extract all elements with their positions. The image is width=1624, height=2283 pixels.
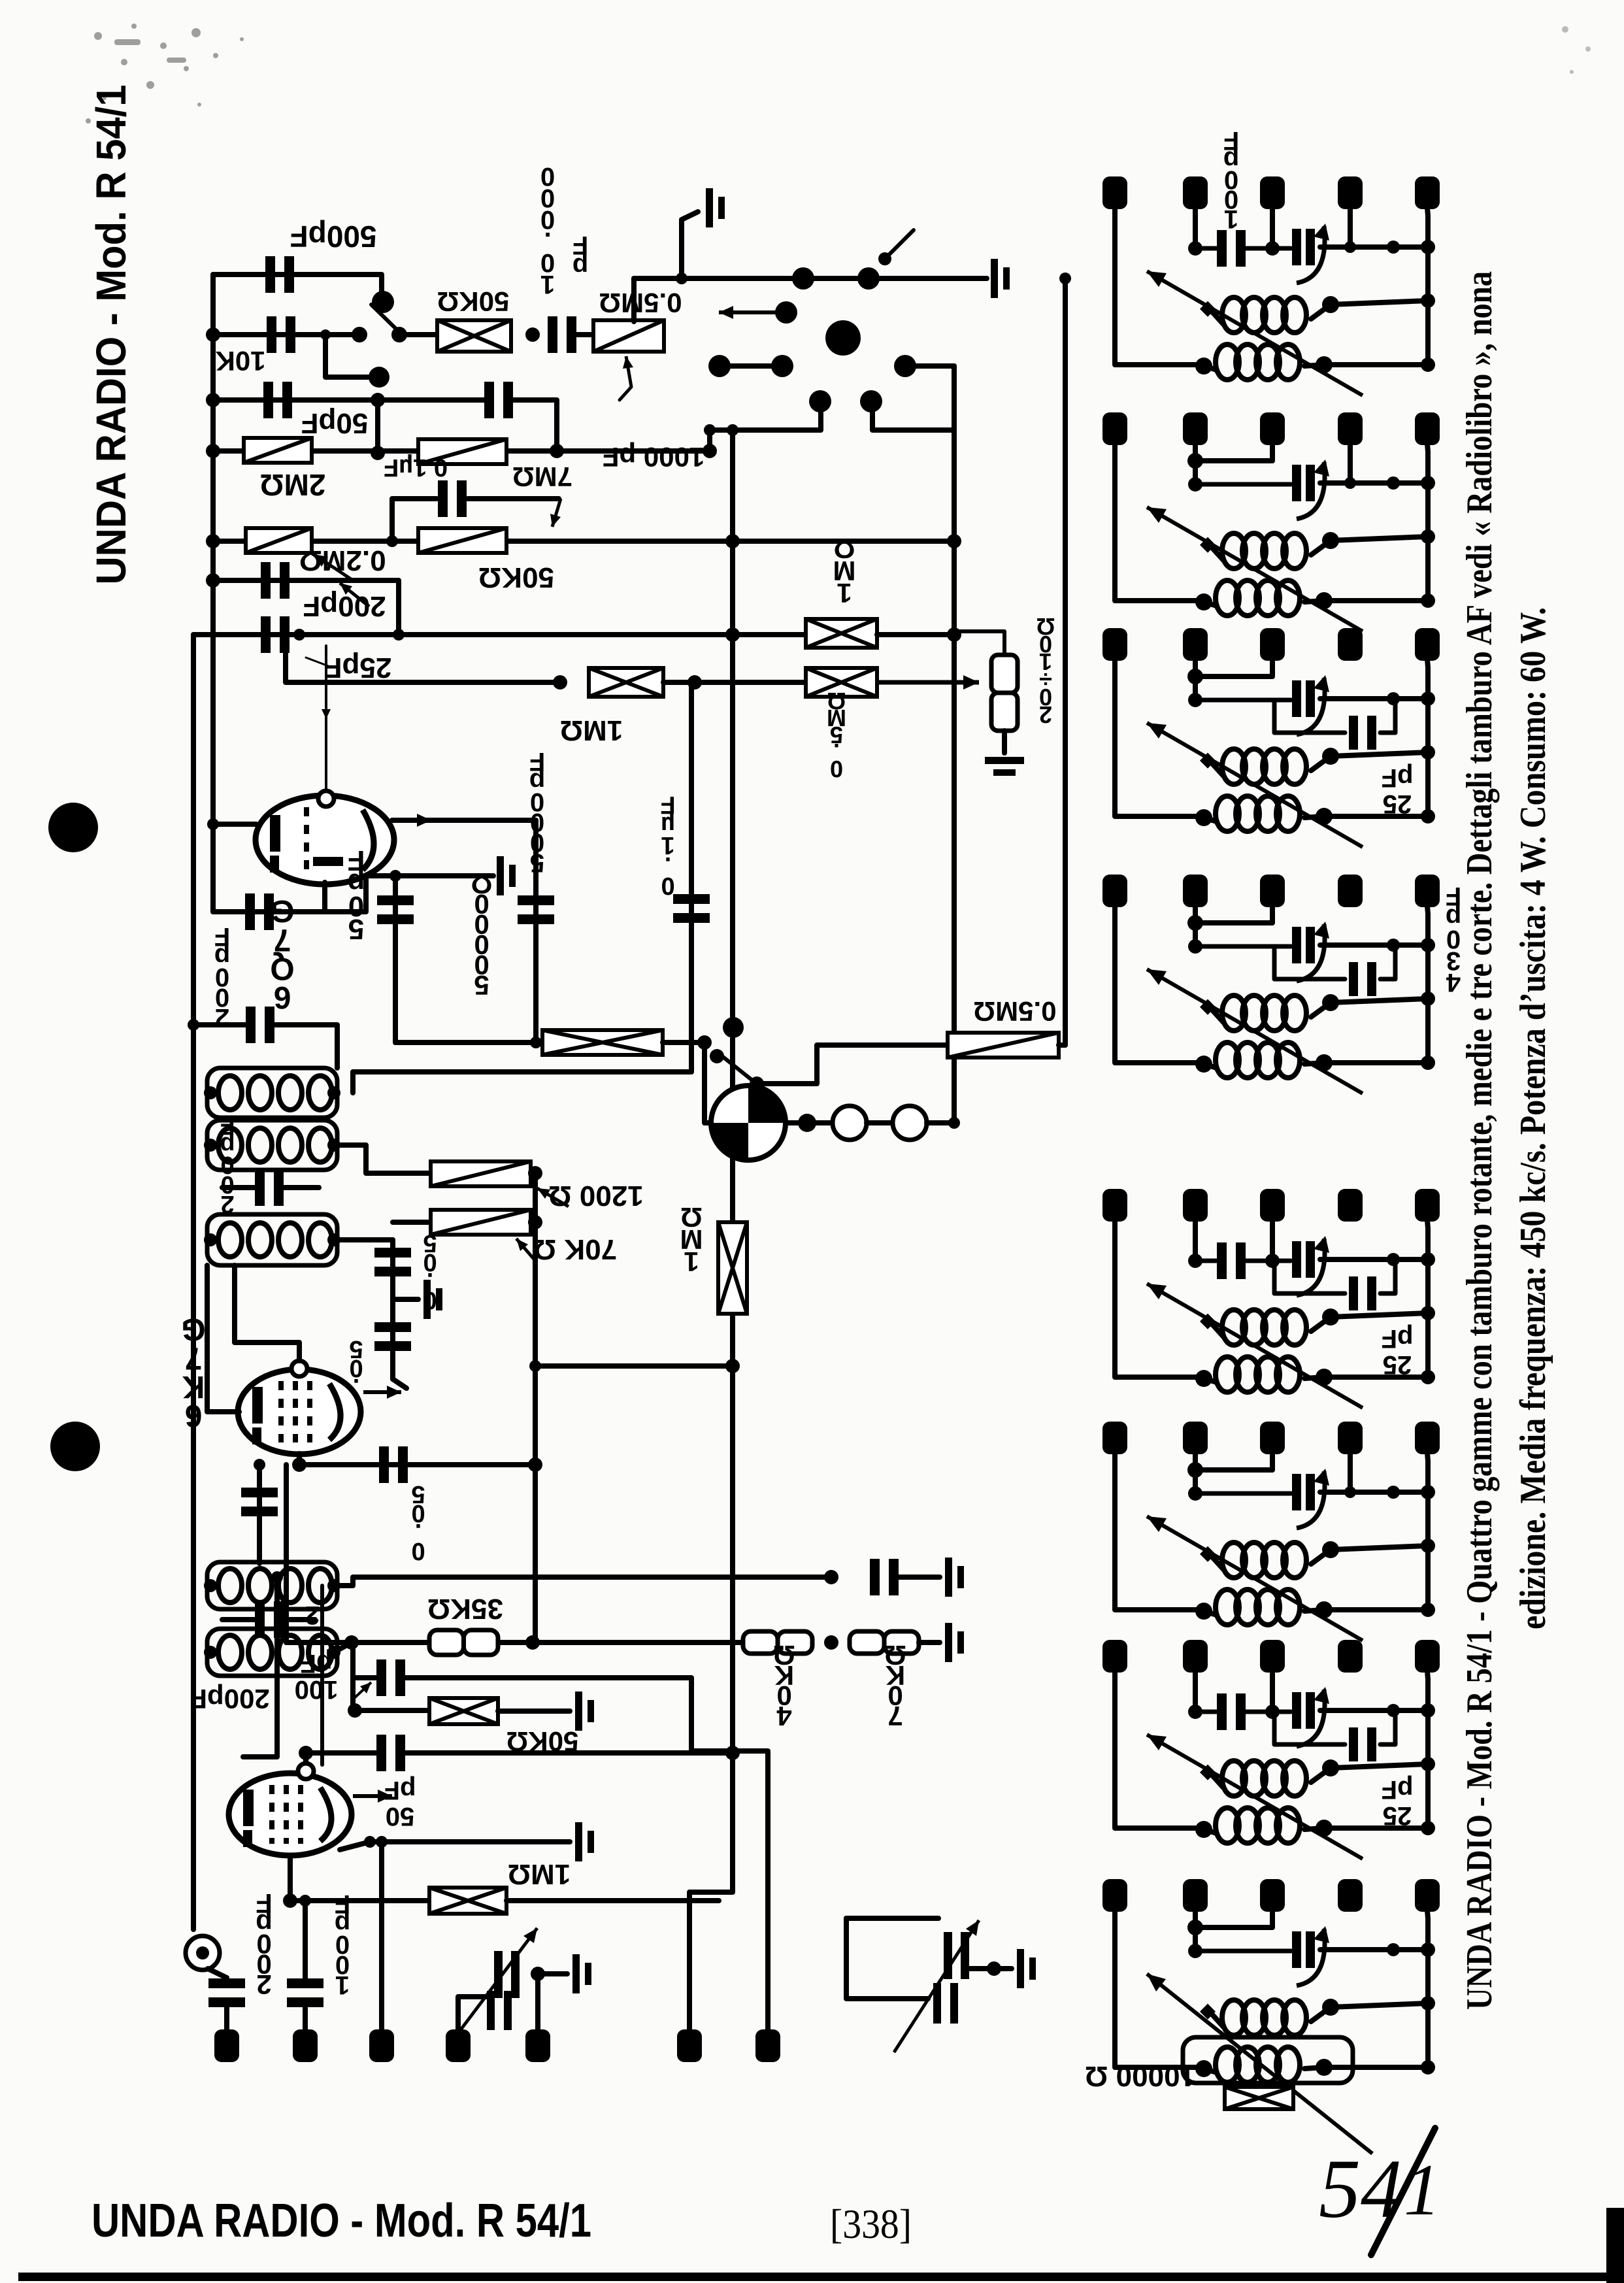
resistor 1M ohm rail: [806, 619, 877, 648]
M2 wire right rail: [1427, 444, 1428, 601]
capacitor 0.05 b: [374, 1322, 411, 1351]
tone switch dot a: [710, 1049, 724, 1063]
M8 wire coil upper right: [1311, 2003, 1428, 2022]
M4 wire p1 riser: [1115, 906, 1201, 1063]
wire socket feed b: [872, 407, 954, 430]
svg-text:25pF: 25pF: [325, 652, 392, 684]
M1 node rail low: [1421, 358, 1435, 372]
M8 coil lower right node: [1316, 2059, 1333, 2076]
M6 node p2: [1188, 1486, 1202, 1501]
oscillator winding: [218, 1223, 332, 1257]
M5 wire trimmer feed: [1246, 1259, 1291, 1263]
osc left node: [204, 1233, 217, 1246]
M6 coil upper right node: [1322, 1541, 1339, 1558]
M5 wire coil lower right: [1304, 1377, 1428, 1378]
wire mid row1044: [663, 680, 806, 685]
M4 capacitor side: [1349, 962, 1376, 996]
M4 slider diamond: [1200, 999, 1216, 1015]
M2 coil lower left curve: [1204, 602, 1217, 606]
wire 2M row: [213, 448, 710, 454]
M4 terminal pad 4: [1338, 875, 1363, 907]
M1 terminal pad 1: [1102, 176, 1127, 209]
M4 coil lower: [1216, 1042, 1300, 1078]
M3 slider diamond: [1200, 753, 1216, 769]
M2 coil upper: [1222, 533, 1306, 569]
wire 6K7G grid: [235, 1265, 299, 1361]
M1 label 100pF: [1223, 126, 1239, 233]
label 10.000 stacked: [540, 162, 555, 299]
padder trimmer B: [933, 1932, 969, 2024]
terminal pad osc: [446, 2029, 471, 2062]
svg-text:7: 7: [887, 1701, 903, 1731]
capacitor 0.05 c: [379, 1446, 408, 1483]
svg-text:edizione. Media frequenza: 450: edizione. Media frequenza: 450 kc/s. Pot…: [1513, 607, 1553, 1629]
svg-text:2MΩ: 2MΩ: [260, 468, 326, 502]
M6 wire right rail: [1427, 1453, 1428, 1610]
capacitor IF2: [255, 1601, 284, 1638]
node 424-2413: [271, 1571, 283, 1583]
svg-text:0.1µF: 0.1µF: [384, 454, 448, 481]
M4 terminal pad 5: [1415, 875, 1440, 907]
M4 terminal pad 1: [1102, 875, 1127, 907]
M4 node rail low: [1421, 1056, 1435, 1070]
svg-text:4: 4: [776, 1701, 792, 1731]
svg-text:10000 Ω: 10000 Ω: [1085, 2060, 1196, 2092]
M6 terminal pad 4: [1338, 1422, 1363, 1454]
svg-text:50pF: 50pF: [301, 407, 369, 439]
M6 coil lower left curve: [1204, 1611, 1217, 1615]
M4 wire right rail: [1427, 906, 1428, 1063]
M8 tuning arrow: [1147, 1974, 1372, 2154]
node 458-2241: [292, 1458, 307, 1472]
wire trimmer B gnd: [969, 1966, 1012, 1971]
wire left bus vertical: [210, 275, 216, 912]
M2 wire p3 step: [1195, 444, 1272, 461]
terminal pad ant: [214, 2029, 239, 2062]
M6 terminal pad 3: [1260, 1422, 1285, 1454]
node bus-690: [206, 444, 220, 458]
M4 coil upper: [1222, 995, 1306, 1031]
label 0.05 b: [349, 1335, 363, 1420]
IF1 winding A: [218, 1076, 332, 1110]
node V1-2090: [725, 1359, 740, 1373]
M3 node p2 step: [1187, 669, 1203, 684]
svg-text:pF: pF: [1382, 1775, 1414, 1804]
M6 coil lower right node: [1316, 1601, 1333, 1618]
M3 node p2: [1188, 693, 1202, 707]
wire socket gnd riser: [682, 212, 698, 278]
svg-text:1: 1: [335, 1971, 350, 1999]
M3 coil lower left node: [1195, 809, 1212, 826]
bottom right edge bar: [1606, 2208, 1624, 2283]
wire 70K row: [393, 1220, 431, 1225]
tube converter 6A8: [229, 1773, 352, 1856]
node trimmer B: [987, 1961, 1001, 1976]
wire x397 column: [257, 1465, 262, 1563]
M1 node p4: [1344, 241, 1356, 253]
M3 coil upper: [1222, 749, 1306, 784]
capacitor 10000pF: [548, 316, 576, 353]
M6 terminal pad 5: [1415, 1422, 1440, 1454]
wire 10K row: [213, 332, 358, 337]
M8 node rail low: [1421, 2060, 1435, 2075]
wire IF2 cap stub b: [282, 1617, 315, 1622]
M7 wire p2 drop: [1193, 1671, 1198, 1712]
wire row 2567: [353, 1675, 376, 1680]
M8 wire p3 step: [1195, 1910, 1272, 1927]
grid lead arrow: [322, 693, 331, 719]
M5 coil lower right node: [1316, 1369, 1333, 1386]
capacitor 200pF a: [261, 562, 290, 599]
label 200pF b: [214, 922, 230, 1032]
M6 node rail trim: [1421, 1485, 1435, 1499]
svg-text:pF: pF: [1382, 763, 1414, 792]
M7 terminal pad 1: [1102, 1640, 1127, 1673]
node V4-2241: [528, 1458, 542, 1472]
svg-text:1: 1: [1404, 2150, 1440, 2231]
wire row 2241: [299, 1462, 535, 1467]
ground trimmer A: [572, 1954, 591, 1993]
ground 70Kb: [945, 1623, 964, 1662]
M8 node rail trim: [1421, 1942, 1435, 1957]
switch lever top right: [889, 230, 914, 255]
socket pin 1: [792, 267, 814, 290]
capacitor 5000pF: [518, 895, 554, 924]
terminal pad osc2: [525, 2029, 550, 2062]
label 50000 ohm: [471, 869, 493, 1001]
wire socket top rail: [634, 276, 987, 281]
M2 node rail up: [1421, 529, 1435, 544]
label 6K7G: [181, 1312, 205, 1433]
M4 coil upper right node: [1322, 994, 1339, 1011]
M7 terminal pad 4: [1338, 1640, 1363, 1673]
node V2 bottom: [948, 1117, 960, 1129]
M6 wire p4 drop: [1348, 1453, 1353, 1492]
M7 wire side loop: [1274, 1712, 1345, 1744]
IF2 winding A frame: [207, 1562, 337, 1609]
ground trimmer B: [1017, 1949, 1036, 1988]
M5 label 25pF: [1382, 1324, 1414, 1379]
wire row 2908: [290, 1898, 429, 1903]
wire pad2 riser: [303, 1901, 308, 1978]
M1 wire trimmer rail: [1320, 244, 1428, 250]
M5 trimmer capacitor: [1292, 1236, 1329, 1295]
M4 wire coil lower right: [1304, 1063, 1428, 1064]
wire 0.2M long rail: [213, 539, 954, 544]
svg-text:p: p: [572, 252, 588, 281]
M3 node rail trim: [1421, 692, 1435, 706]
M7 wire cap link b: [1246, 1710, 1272, 1714]
M3 terminal pad 5: [1415, 628, 1440, 661]
svg-text:7MΩ: 7MΩ: [512, 461, 572, 492]
wire osc to 0.05 column: [334, 1237, 393, 1242]
wire 50pF drop: [393, 876, 398, 1042]
IF2 winding B: [218, 1635, 332, 1669]
resistor 50K ohm: [437, 320, 511, 352]
M2 terminal pad 3: [1260, 412, 1285, 445]
wire 50Kc gnd: [498, 1708, 570, 1714]
M3 wire trimmer feed: [1195, 698, 1291, 703]
M1 wire p3 drop: [1270, 208, 1275, 248]
resistor 50K ohm b: [418, 528, 506, 553]
M6 coil lower: [1216, 1590, 1300, 1625]
svg-text:1: 1: [540, 270, 555, 299]
tone switch lever: [719, 1054, 752, 1080]
wire tone row: [395, 1040, 542, 1045]
capacitor 1000pF: [484, 382, 513, 418]
M5 node rail low: [1421, 1370, 1435, 1384]
capacitor 500pF: [265, 256, 294, 293]
wire V7 vertical: [1063, 278, 1068, 1045]
wire V5: [350, 1642, 356, 1710]
M7 coil upper: [1222, 1761, 1306, 1796]
svg-text:UNDA RADIO - Mod. R 54/1: UNDA RADIO - Mod. R 54/1: [91, 2195, 591, 2247]
socket pin 4b: [708, 355, 731, 377]
node trimmer A: [531, 1967, 545, 1981]
M5 wire coil upper right: [1311, 1313, 1428, 1331]
M3 terminal pad 2: [1183, 628, 1208, 661]
wire IF2B to diamond: [334, 1642, 352, 1652]
M8 wire coil lower right: [1304, 2067, 1428, 2069]
M7 coil lower: [1216, 1808, 1300, 1843]
svg-text:0: 0: [411, 1537, 425, 1565]
wire IF2A to rail2413: [334, 1577, 831, 1586]
resistor 35K ohm: [429, 1630, 498, 1655]
M8 node p2: [1188, 1944, 1202, 1958]
M2 wire p4 drop: [1348, 444, 1353, 483]
bottom rule line: [18, 2273, 1624, 2281]
switch dot top right: [878, 252, 891, 265]
node 820-1595: [530, 1037, 542, 1048]
M7 node p2: [1188, 1705, 1202, 1719]
M1 terminal pad 3: [1260, 176, 1285, 209]
pilot lamp 1: [833, 1106, 867, 1140]
svg-text:0: 0: [661, 872, 674, 899]
wire trimmer B hook b: [846, 1918, 928, 1999]
M7 tuning arrow: [1147, 1735, 1363, 1859]
svg-text:0.2MΩ: 0.2MΩ: [299, 544, 386, 576]
M2 wire p2 drop: [1193, 444, 1198, 484]
node bus-888: [206, 573, 220, 588]
svg-text:25: 25: [1383, 790, 1412, 818]
wire socket rail drop: [631, 278, 637, 322]
M5 coil lower: [1216, 1357, 1300, 1392]
phono motor symbol: [711, 1086, 786, 1160]
M5 capacitor mid: [1217, 1242, 1246, 1279]
wire x424 bracket: [243, 1577, 277, 1757]
resistor 50000 ohm: [542, 1030, 663, 1055]
M7 node rail trim: [1421, 1703, 1435, 1718]
wire 1M drop link: [535, 1363, 733, 1369]
svg-text:1MΩ: 1MΩ: [508, 1858, 571, 1890]
M2 wire coil upper right: [1311, 537, 1428, 555]
IF2 A right node: [327, 1579, 340, 1592]
M2 coil upper right node: [1322, 532, 1339, 549]
M2 terminal pad 5: [1415, 412, 1440, 445]
svg-text:pF: pF: [1382, 1324, 1414, 1353]
resistor 0.5M ohm volume: [593, 320, 664, 352]
M7 wire coil lower right: [1304, 1828, 1428, 1829]
resistor 1200 ohm: [431, 1161, 531, 1186]
resistor 70K ohm b: [850, 1631, 919, 1654]
M5 terminal pad 5: [1415, 1189, 1440, 1222]
wire pad4 riser: [458, 1997, 489, 2029]
capacitor 0.1uF b: [673, 894, 710, 923]
node rail828-V1: [725, 534, 740, 548]
capacitor 50pF: [263, 382, 292, 418]
M5 coil lower left node: [1195, 1370, 1212, 1387]
wire 578 drop: [375, 400, 380, 453]
M5 wire right rail: [1427, 1220, 1428, 1377]
M7 wire coil upper right: [1311, 1764, 1428, 1782]
arrow 70K: [516, 1239, 536, 1261]
trimmer A arrow: [457, 1928, 537, 2034]
M5 wire p2 drop: [1193, 1220, 1198, 1261]
M2 node rail trim: [1421, 476, 1435, 490]
label 0.05 c: [411, 1480, 425, 1565]
IF2 B left node: [204, 1646, 217, 1659]
M5 wire cap link b: [1246, 1259, 1272, 1263]
M3 label 25pF: [1382, 763, 1414, 818]
svg-text:200pF: 200pF: [303, 590, 386, 622]
tone switch big dot: [723, 1017, 744, 1038]
M2 node p2: [1188, 477, 1202, 492]
IF2 winding A: [218, 1569, 332, 1603]
svg-text:70K Ω: 70K Ω: [533, 1233, 617, 1265]
M2 wire trimmer feed: [1195, 482, 1291, 487]
node 857-1044: [553, 675, 567, 690]
punch hole lower: [50, 1422, 100, 1471]
wire pad2 lower: [303, 2008, 308, 2029]
M2 wire coil lower right: [1304, 601, 1428, 602]
M1 coil upper: [1222, 297, 1306, 333]
trimmer B arrow: [894, 1920, 979, 2052]
M3 coil upper right node: [1322, 748, 1339, 765]
node 578-612: [371, 393, 385, 407]
capacitor 50pF b: [377, 895, 414, 924]
M8 wire p1 riser: [1115, 1910, 1201, 2067]
M3 wire coil upper right: [1311, 752, 1428, 771]
svg-text:2: 2: [305, 1601, 320, 1629]
M2 tuning arrow: [1147, 507, 1363, 631]
M7 wire right rail: [1427, 1671, 1428, 1828]
M1 wire trimmer feed: [1246, 246, 1291, 251]
wire V4 vertical: [533, 1173, 538, 1644]
M3 terminal pad 4: [1338, 628, 1363, 661]
resistor 1M ohm vertical: [718, 1222, 747, 1314]
M1 wire coil lower right: [1304, 365, 1428, 366]
svg-text:1: 1: [684, 1246, 699, 1277]
M5 wire p1 riser: [1115, 1220, 1201, 1377]
label 1M vertical: [680, 1202, 703, 1277]
wire lamp2 to V2: [927, 1120, 954, 1125]
M4 node p2 step: [1187, 915, 1203, 931]
M5 node rail trim: [1421, 1252, 1435, 1267]
wire row 2908 right: [506, 1898, 719, 1903]
M5 node pre-rail: [1387, 1253, 1400, 1266]
M8 terminal pad 1: [1102, 1879, 1127, 1912]
svg-text:2: 2: [1039, 701, 1052, 728]
M7 wire cap link: [1195, 1710, 1216, 1714]
M4 label 430pF: [1446, 882, 1461, 997]
M1 coil lower left curve: [1204, 366, 1217, 370]
M1 wire cap link b: [1246, 246, 1272, 251]
node V2-971: [947, 627, 961, 642]
wire rail 2513: [286, 1640, 743, 1645]
svg-text:[338]: [338]: [830, 2201, 912, 2247]
switch lever: [371, 305, 399, 332]
wire gnd stub 0.05: [393, 1297, 418, 1302]
M8 wire p2p3 link: [1195, 1949, 1291, 1954]
IF1 winding B frame: [207, 1120, 337, 1170]
M8 node rail up: [1421, 1996, 1435, 2010]
wire phono drop: [704, 1042, 712, 1123]
M6 wire p1 riser: [1115, 1453, 1201, 1610]
M7 terminal pad 3: [1260, 1640, 1285, 1673]
leader 25pF: [306, 658, 330, 667]
node lamp a: [798, 1114, 816, 1132]
wiper arrow 0.5M: [623, 356, 633, 387]
capacitor 100pF b: [287, 1978, 323, 2007]
M7 coil upper left curve: [1210, 1773, 1223, 1788]
M1 coil lower left node: [1195, 358, 1212, 375]
wiper arrow 0.2M: [314, 554, 353, 580]
svg-text:1200 Ω: 1200 Ω: [548, 1180, 643, 1212]
M6 coil lower left node: [1195, 1603, 1212, 1620]
wire 1000pF to corner: [512, 400, 557, 451]
wiper stub: [620, 387, 631, 400]
handwritten 54/1: [1319, 2128, 1440, 2255]
M5 terminal pad 2: [1183, 1189, 1208, 1222]
wire switch lower branch: [325, 335, 368, 377]
resistor 0.2M ohm: [246, 528, 312, 553]
node bus-828: [206, 534, 220, 548]
M3 terminal pad 3: [1260, 628, 1285, 661]
wire grid converter: [303, 1753, 308, 1773]
wire cathode gnd row: [370, 1839, 570, 1844]
M2 terminal pad 2: [1183, 412, 1208, 445]
M3 coil lower right node: [1316, 808, 1333, 825]
M8 node p2 step: [1187, 1920, 1203, 1935]
M3 wire side loop b: [1380, 700, 1395, 733]
M8 wire trimmer rail: [1320, 1947, 1428, 1952]
node 610-971: [393, 629, 405, 641]
M4 wire trimmer rail: [1320, 942, 1428, 948]
wire IF1B right to 1200: [334, 1145, 431, 1173]
wire 1M to V2: [877, 632, 954, 637]
wire jack to cap: [208, 1969, 227, 1978]
svg-text:2: 2: [256, 1969, 271, 2000]
socket pin 6: [809, 390, 831, 412]
M2 terminal pad 4: [1338, 412, 1363, 445]
switch contact a: [352, 327, 367, 342]
wire 0.05 column: [393, 1240, 406, 1388]
M6 node rail low: [1421, 1603, 1435, 1617]
node 1086-658: [704, 424, 716, 436]
wire socket feed riser: [710, 407, 821, 451]
wire row1044 start: [286, 635, 560, 682]
M1 wire p4 drop: [1348, 208, 1353, 247]
wire pin5 to V2: [905, 363, 954, 369]
label 70K ohm b: [884, 1640, 906, 1731]
node 468-2682: [299, 1746, 313, 1760]
svg-text:5: 5: [474, 970, 489, 1001]
M4 coil lower left node: [1195, 1056, 1212, 1073]
M4 wire side loop: [1274, 946, 1345, 979]
M1 node p2: [1188, 241, 1202, 256]
node 566-2818: [364, 1836, 376, 1848]
wire 6K7G cathode: [297, 1454, 302, 1465]
